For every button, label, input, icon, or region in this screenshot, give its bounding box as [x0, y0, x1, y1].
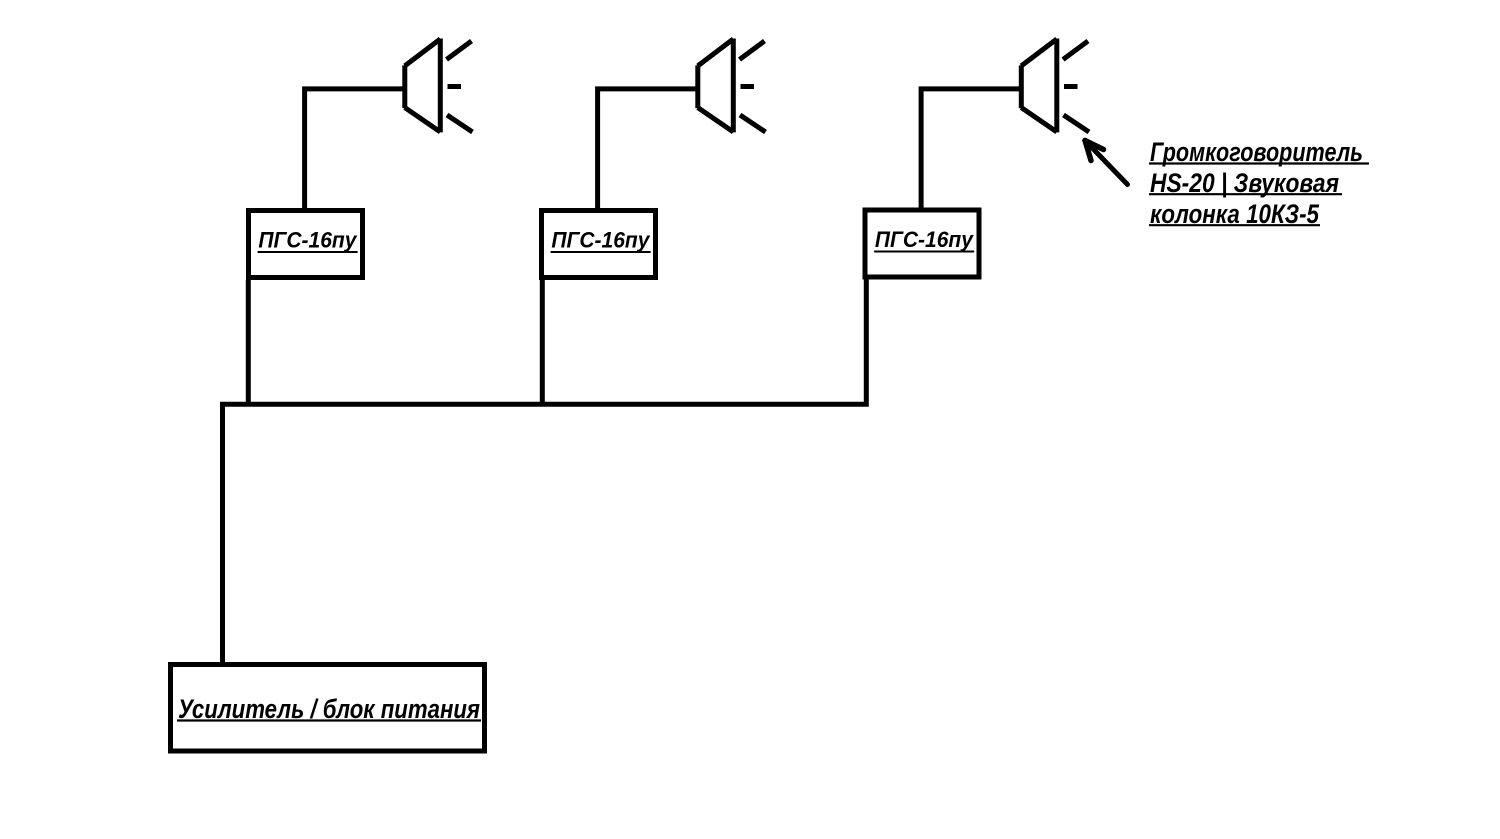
box PGS-1 (ПГС-16пу) — [249, 211, 363, 278]
wire: box PGS-2 up and over to loudspeaker LS2 — [598, 89, 696, 210]
svg-text:ПГС-16пу: ПГС-16пу — [875, 227, 975, 252]
wire: box PGS-2 down to bus — [540, 280, 545, 404]
annotation arrow pointing to loudspeaker LS3 — [1085, 141, 1128, 185]
wire: box PGS-1 up and over to loudspeaker LS1 — [305, 89, 403, 210]
loudspeaker LS1 horn symbol — [405, 39, 473, 133]
amplifier box (Усилитель / блок питания) — [171, 665, 485, 752]
svg-text:ПГС-16пу: ПГС-16пу — [258, 228, 358, 253]
wire: box PGS-1 down to bus — [246, 280, 251, 404]
loudspeaker LS3 horn symbol — [1021, 39, 1089, 133]
box PGS-3 (ПГС-16пу) — [865, 210, 979, 277]
bus wire: amplifier up, along bus, and up to box PGS-3 — [223, 279, 867, 663]
box PGS-2 (ПГС-16пу) — [542, 211, 656, 278]
loudspeaker LS2 horn symbol — [698, 39, 766, 133]
wire: box PGS-3 up and over to loudspeaker LS3 — [921, 89, 1019, 210]
svg-text:ПГС-16пу: ПГС-16пу — [551, 228, 651, 253]
